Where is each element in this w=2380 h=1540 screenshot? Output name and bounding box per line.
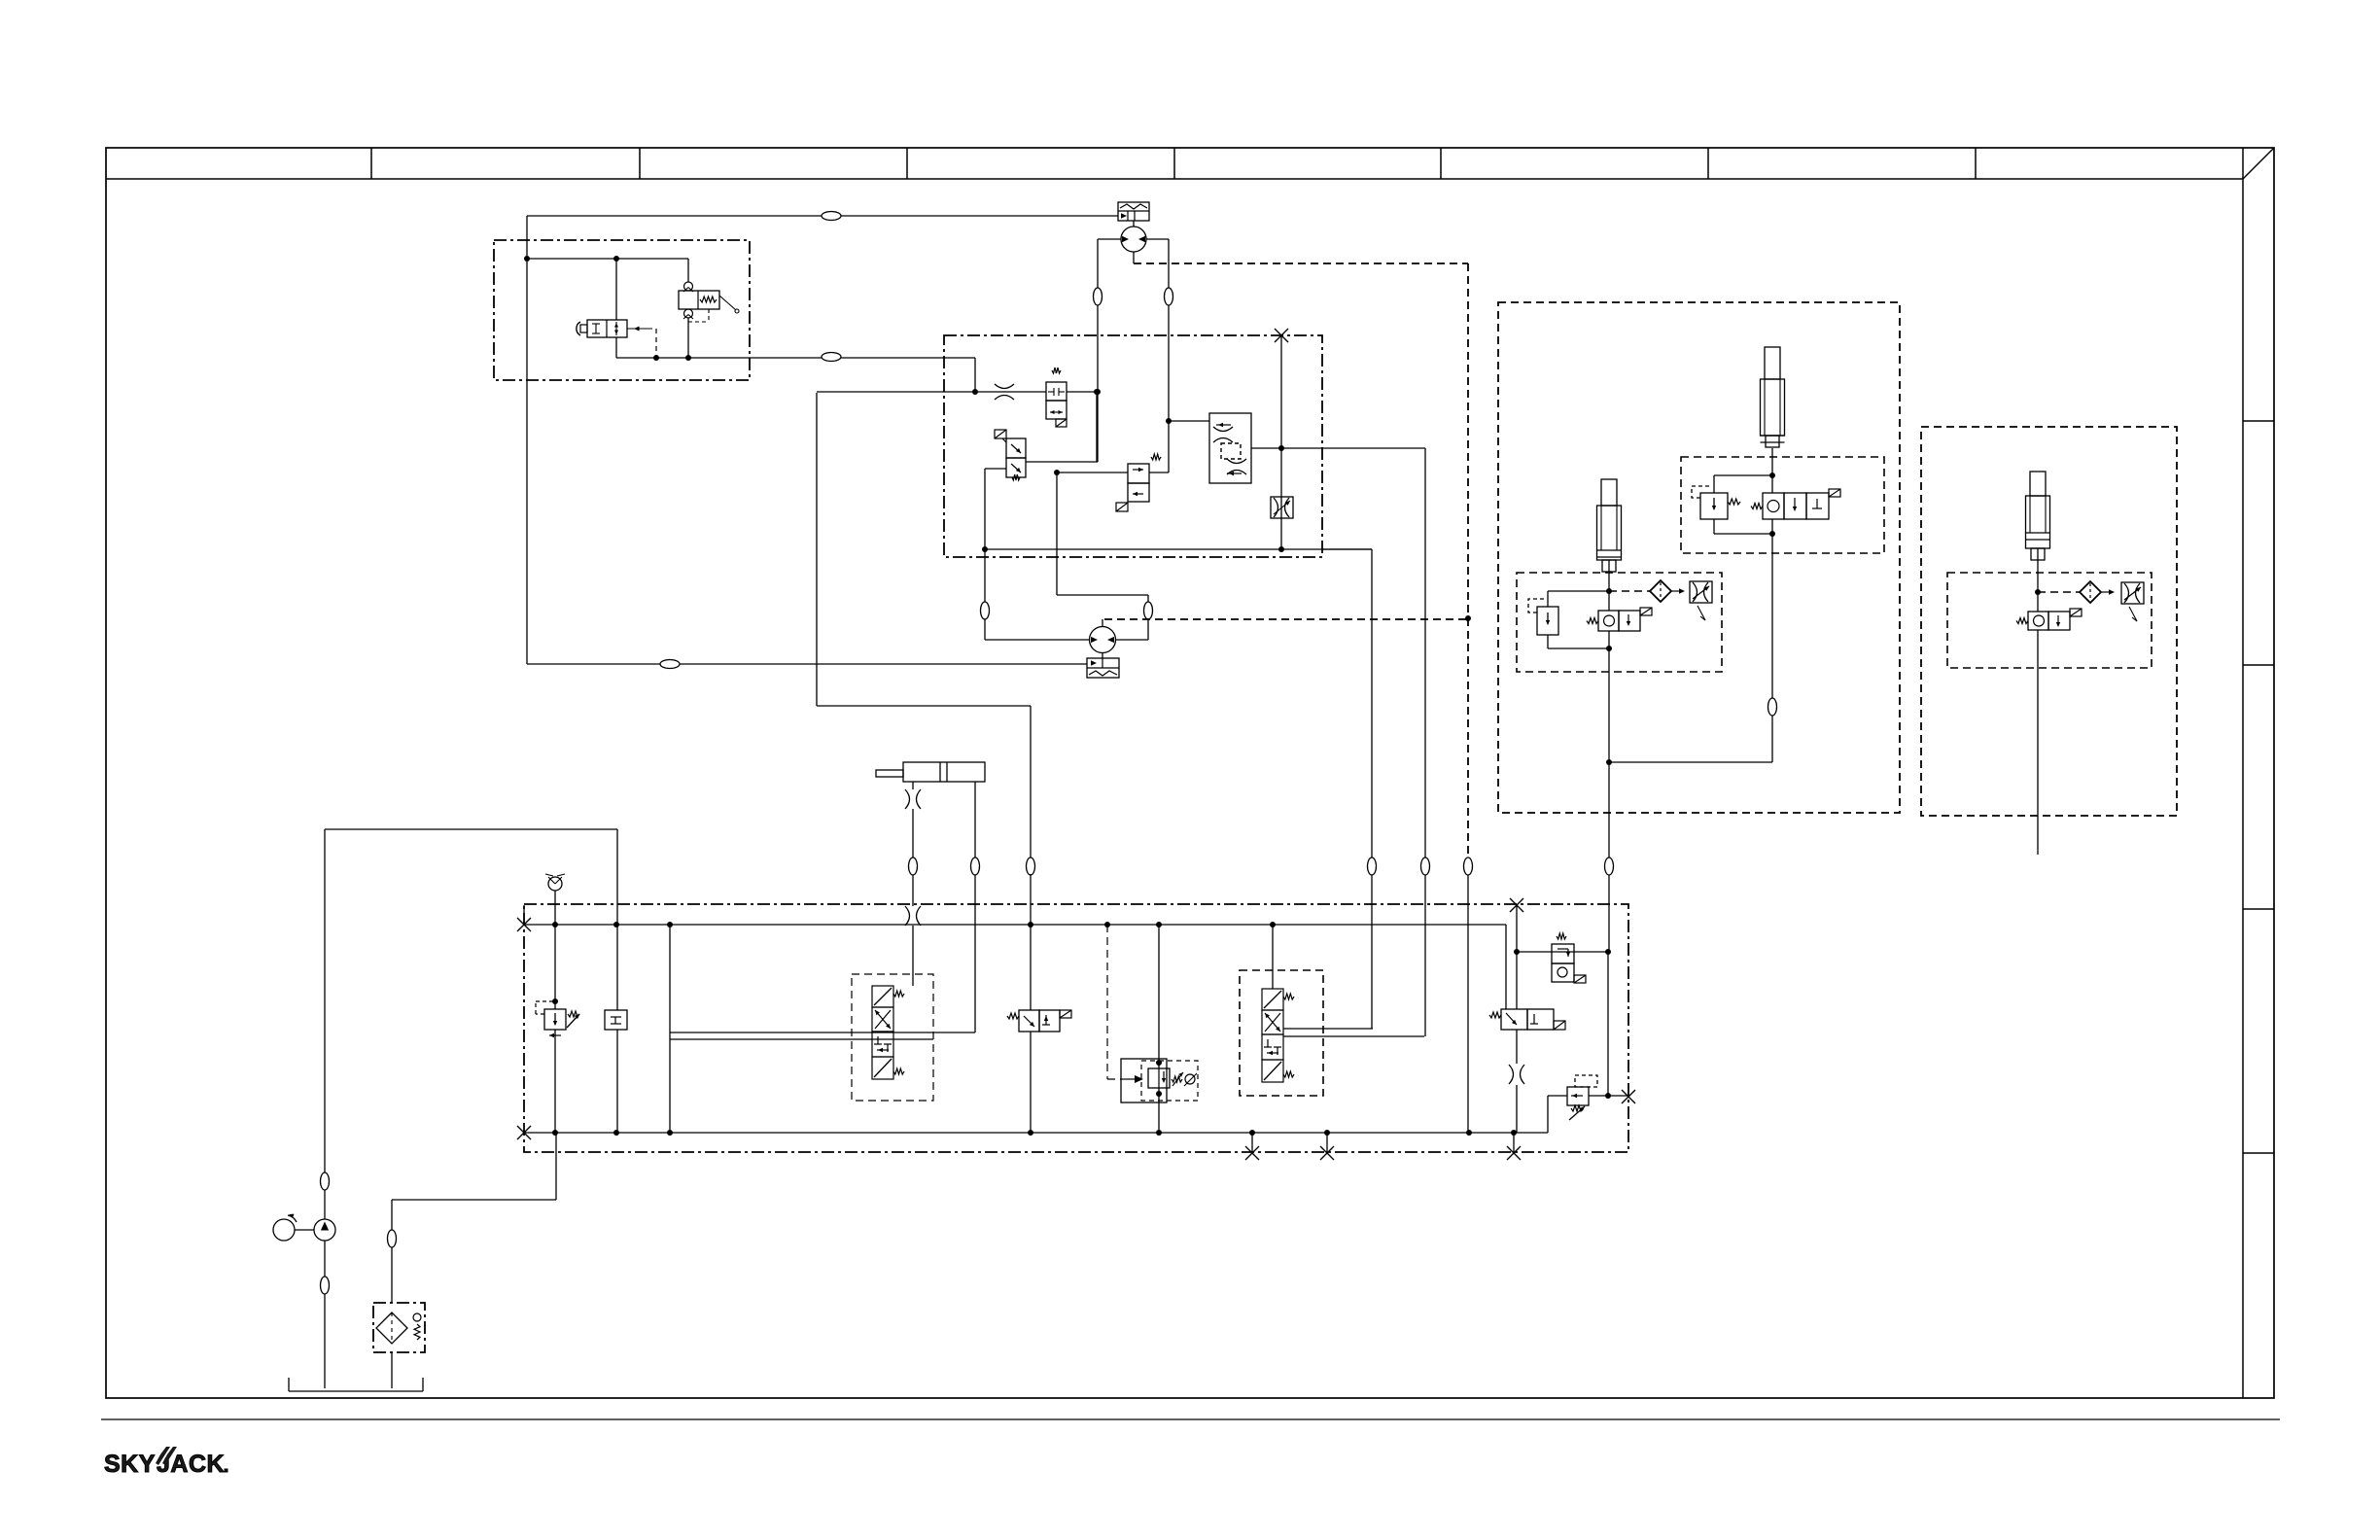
svg-text:SKY: SKY: [104, 1451, 156, 1478]
